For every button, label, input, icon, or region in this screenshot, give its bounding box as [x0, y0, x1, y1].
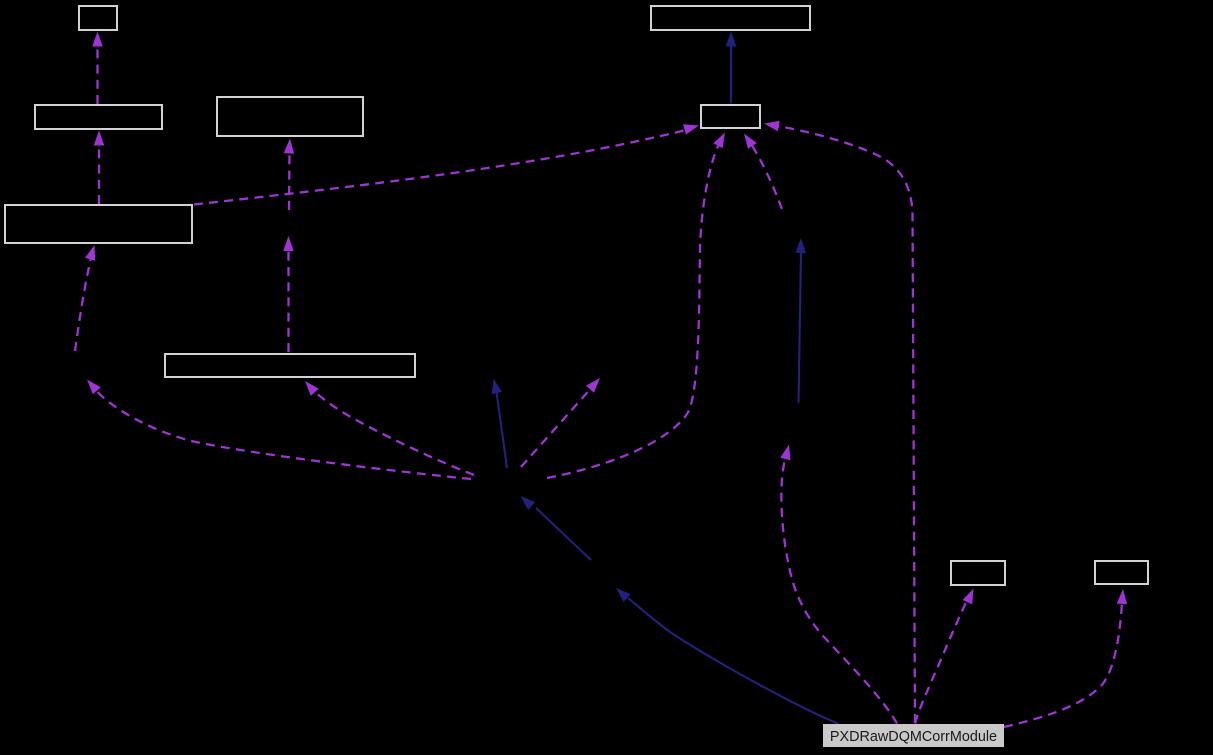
- edge N2->N4 dashed: [521, 378, 600, 467]
- edge D->B dashed: [94, 131, 105, 205]
- edge N2->N1 dashed: [87, 380, 471, 480]
- edge N2->E dashed: [305, 381, 474, 475]
- edge N5->F dashed: [744, 134, 782, 210]
- node A (top-left small): [79, 6, 117, 30]
- svg-text:PXDRawDQMCorrModule: PXDRawDQMCorrModule: [830, 729, 997, 745]
- node F: [701, 105, 760, 128]
- edge F->G blue: [726, 32, 737, 104]
- edge N2->N3 blue: [492, 379, 507, 469]
- node B: [35, 105, 162, 129]
- node I (bottom-right 2): [1095, 561, 1148, 584]
- node G (top-center): [651, 6, 810, 30]
- edge N7->C dashed: [284, 139, 295, 211]
- edge M->N6 dashed: [780, 445, 897, 724]
- edge M->F dashed (right sweep): [764, 121, 915, 723]
- edge D->F dashed: [194, 124, 699, 204]
- edge M->N8 blue: [616, 588, 838, 724]
- edge E->N7 dashed: [283, 236, 294, 352]
- edge N6->N5 blue: [795, 238, 806, 403]
- edge N1->D dashed: [75, 245, 95, 351]
- edge N2->F dashed: [547, 133, 725, 479]
- edge M->H dashed: [915, 589, 974, 724]
- node C (two-line): [217, 97, 363, 136]
- edge B->A dashed: [92, 32, 103, 105]
- node E: [165, 354, 415, 377]
- node H (bottom-right 1): [951, 561, 1005, 585]
- edge M->I dashed: [1004, 589, 1127, 727]
- edge N8->N2 blue: [521, 496, 592, 560]
- node D (two-line): [5, 205, 192, 243]
- main node PXDRawDQMCorrModule: [823, 724, 1004, 747]
